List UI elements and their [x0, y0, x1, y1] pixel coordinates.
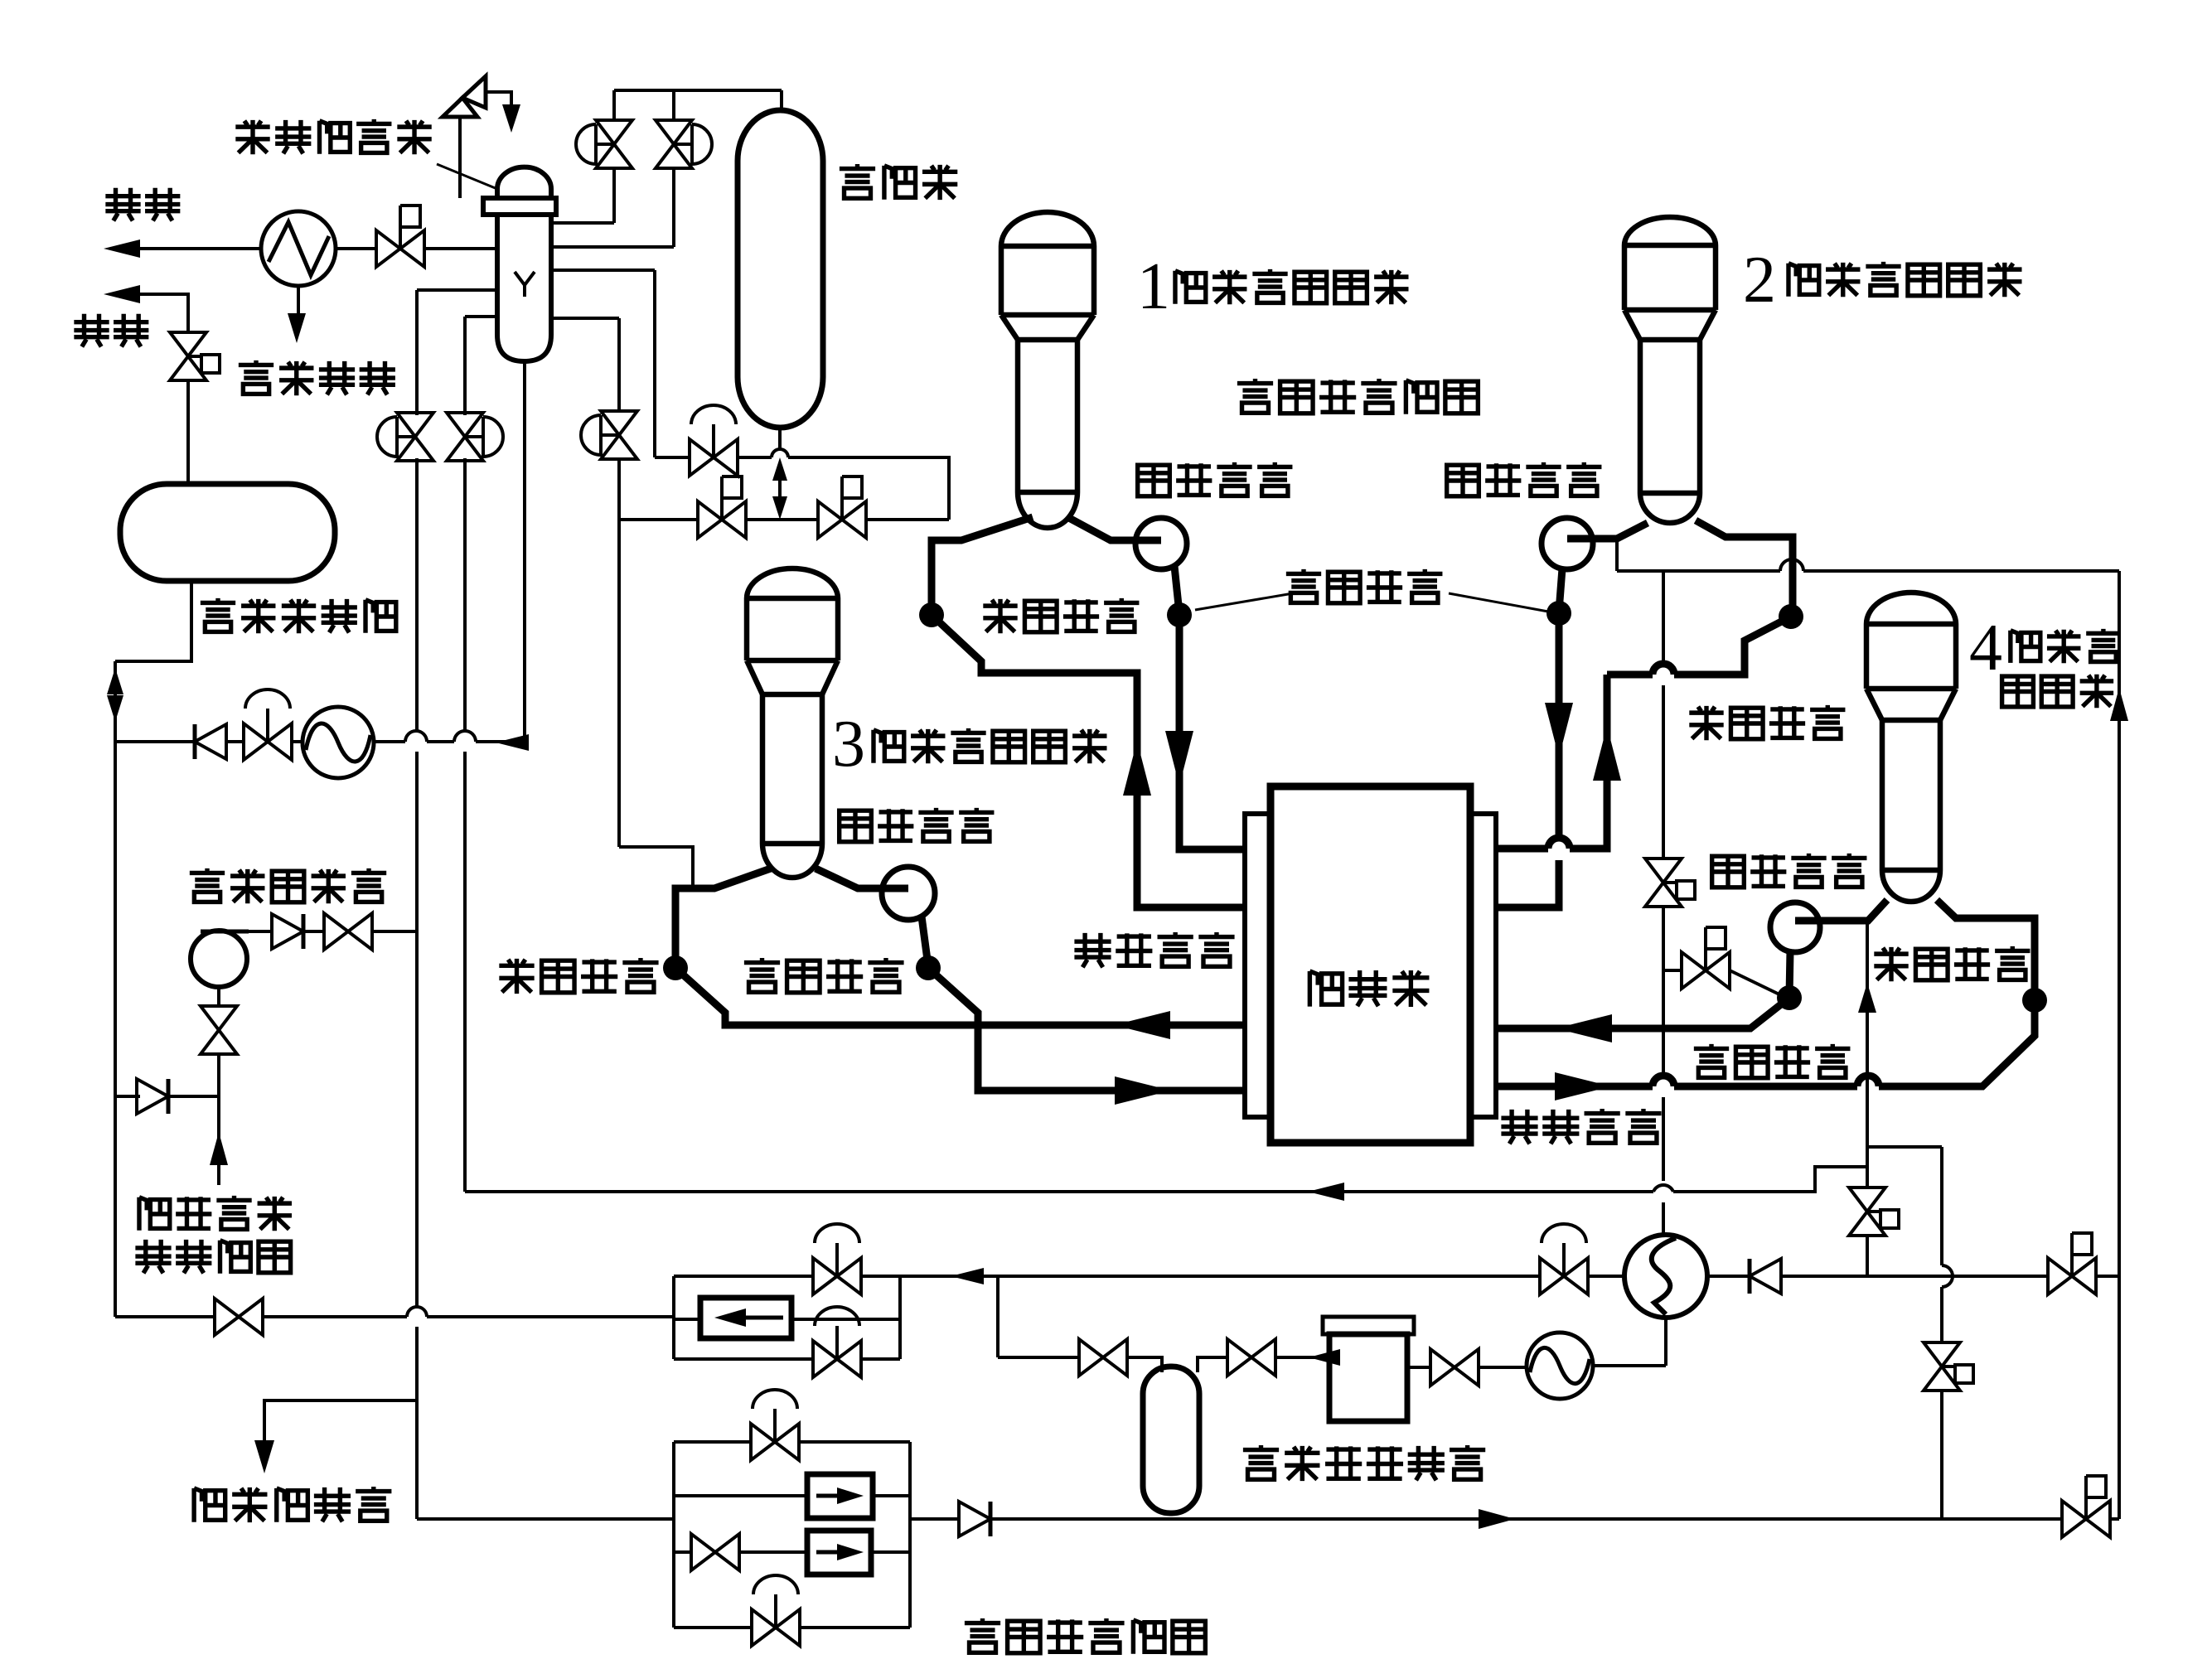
svg-text:1: 1 — [1137, 250, 1170, 323]
svg-text:3: 3 — [832, 708, 865, 781]
svg-text:2: 2 — [1743, 244, 1776, 317]
svg-text:4: 4 — [1969, 612, 2002, 684]
